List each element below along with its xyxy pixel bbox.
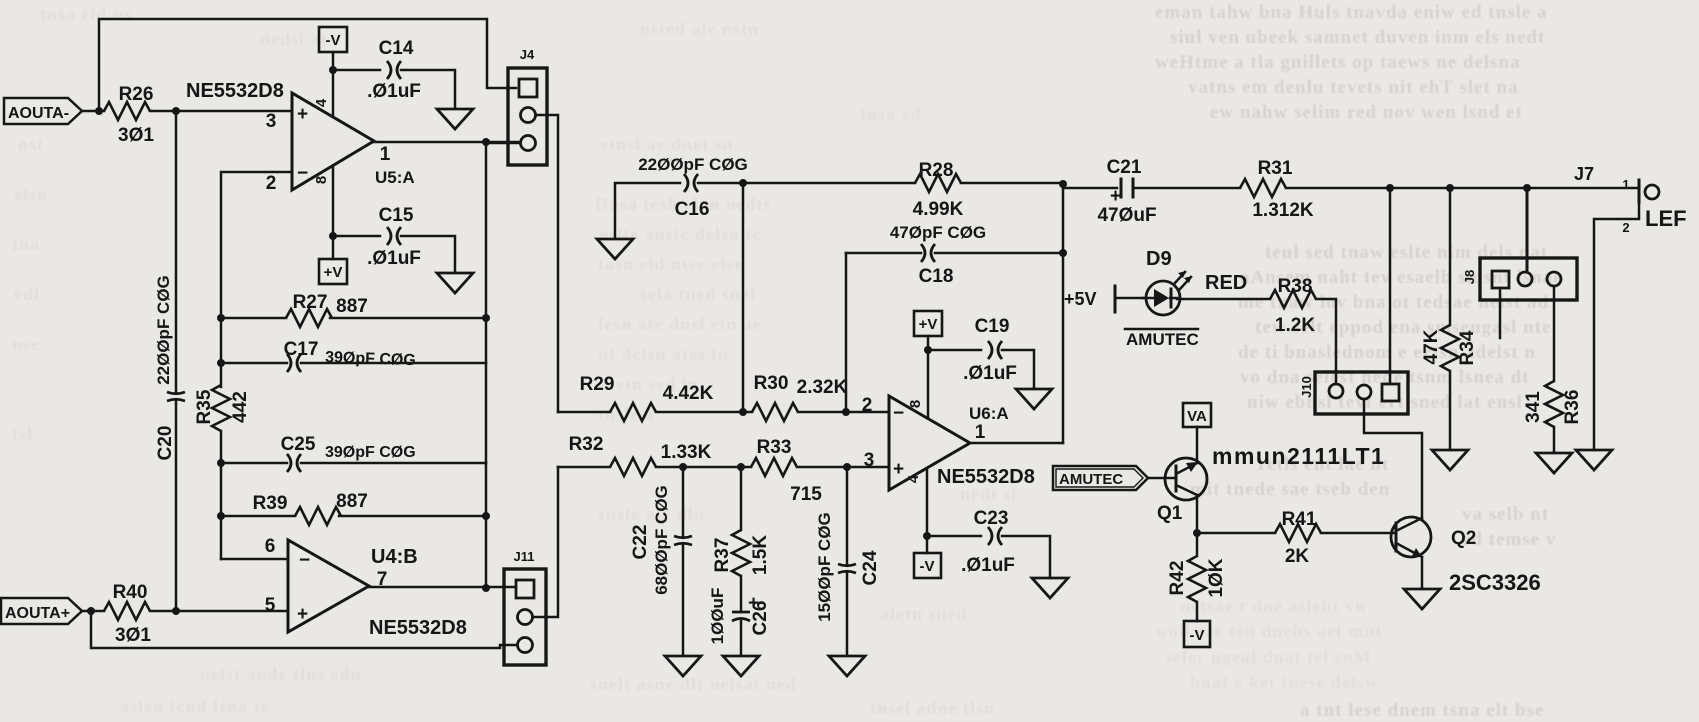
node C17 left bbox=[217, 359, 225, 367]
supply box VA bbox=[1183, 403, 1211, 427]
svg-text:seler ugeal dnat tel snM: seler ugeal dnat tel snM bbox=[1165, 647, 1372, 667]
op-amp U6:A bbox=[862, 395, 1035, 490]
LED D9 bbox=[1143, 248, 1247, 315]
node R37 tee bbox=[737, 463, 745, 471]
capacitor C15 bbox=[367, 205, 421, 269]
capacitor C18 bbox=[846, 223, 1063, 287]
svg-text:tnsel adne tlsn: tnsel adne tlsn bbox=[870, 698, 995, 718]
op-amp U5:A bbox=[186, 80, 415, 194]
wire U4:B pin6 to left bus bbox=[221, 558, 288, 561]
wire feedback up and top rail to J4 bbox=[99, 19, 516, 111]
svg-text:J10: J10 bbox=[1299, 376, 1314, 398]
node C15 tee bbox=[329, 232, 337, 240]
capacitor C23 bbox=[927, 508, 1015, 576]
ground (C19) bbox=[1016, 389, 1052, 409]
svg-text:R34: R34 bbox=[1457, 330, 1478, 365]
svg-text:aslen tend lsna te: aslen tend lsna te bbox=[120, 696, 270, 716]
resistor R34 bbox=[1421, 188, 1478, 449]
node R29/R30 junction bbox=[739, 408, 747, 416]
svg-text:68ØØpF CØG: 68ØØpF CØG bbox=[652, 485, 671, 595]
svg-text:J4: J4 bbox=[520, 47, 535, 62]
wire C23 to ground bbox=[1002, 536, 1050, 577]
svg-text:J11: J11 bbox=[514, 549, 535, 564]
resistor R38 bbox=[1270, 276, 1316, 336]
node R28 right bbox=[1059, 180, 1067, 188]
svg-text:niw ebnsl tevt ert sned lat en: niw ebnsl tevt ert sned lat ensl bbox=[1247, 392, 1523, 413]
svg-text:R39: R39 bbox=[253, 493, 288, 514]
node R34 tee bbox=[1446, 184, 1454, 192]
svg-text:weHtme a tla gnillets op taews: weHtme a tla gnillets op taews ne delsna bbox=[1155, 52, 1521, 73]
wire -V to pin4 bbox=[926, 468, 929, 553]
svg-text:R41: R41 bbox=[1282, 509, 1317, 530]
svg-text:2SC3326: 2SC3326 bbox=[1449, 570, 1541, 595]
svg-text:+: + bbox=[297, 604, 308, 625]
svg-text:2K: 2K bbox=[1285, 546, 1310, 567]
ground (C15) bbox=[437, 273, 473, 293]
svg-text:2: 2 bbox=[862, 395, 873, 416]
svg-text:C24: C24 bbox=[860, 550, 881, 585]
ground (C22) bbox=[665, 656, 701, 676]
svg-text:U6:A: U6:A bbox=[969, 404, 1009, 423]
node C14 tee bbox=[329, 66, 337, 74]
svg-text:5: 5 bbox=[265, 595, 276, 616]
svg-text:lesn ate dnsl etn ae: lesn ate dnsl etn ae bbox=[598, 314, 762, 334]
wire output vertical bus U6 bbox=[1062, 184, 1065, 443]
wire J10 square lead bbox=[1389, 188, 1392, 384]
svg-text:mit tnede sae tseb den: mit tnede sae tseb den bbox=[1190, 479, 1390, 500]
svg-text:tnsa eld ns: tnsa eld ns bbox=[40, 4, 132, 24]
wire C16 to R28 bbox=[698, 182, 915, 185]
svg-text:netsae t dne aslebt vn: netsae t dne aslebt vn bbox=[1180, 596, 1366, 616]
svg-text:1.33K: 1.33K bbox=[661, 442, 712, 463]
node R39 left bbox=[217, 512, 225, 520]
ground (R36) bbox=[1536, 453, 1572, 473]
svg-text:elsn: elsn bbox=[14, 184, 48, 204]
input tag AOUTA- bbox=[4, 98, 82, 124]
svg-text:C16: C16 bbox=[675, 199, 710, 220]
wire J7 pin2 to ground bbox=[1594, 202, 1639, 449]
node C23 tee bbox=[923, 532, 931, 540]
svg-text:J8: J8 bbox=[1462, 270, 1477, 284]
svg-text:vatns em denlu tevets nit ehT: vatns em denlu tevets nit ehT slet na bbox=[1188, 77, 1519, 98]
svg-text:+5V: +5V bbox=[1064, 289, 1097, 309]
node C20 bottom junction bbox=[172, 607, 180, 615]
svg-text:47ØpF CØG: 47ØpF CØG bbox=[890, 223, 986, 242]
svg-text:1ØK: 1ØK bbox=[1206, 558, 1227, 597]
svg-text:C17: C17 bbox=[284, 339, 319, 360]
svg-text:.Ø1uF: .Ø1uF bbox=[367, 248, 421, 269]
resistor R32 bbox=[558, 434, 751, 476]
node R30 right / C18 tee bbox=[842, 408, 850, 416]
capacitor C14 bbox=[367, 38, 421, 102]
svg-text:RED: RED bbox=[1205, 272, 1247, 294]
svg-text:de ti bnaslednom e ertsn adels: de ti bnaslednom e ertsn adelst n bbox=[1238, 342, 1536, 363]
wire C15 to ground bbox=[401, 236, 455, 272]
svg-text:39ØpF CØG: 39ØpF CØG bbox=[325, 349, 416, 369]
wire U5:A output to J4 bbox=[374, 141, 518, 144]
svg-text:R37: R37 bbox=[712, 538, 733, 573]
transistor Q1 bbox=[1157, 427, 1207, 533]
node Q1 emitter junction bbox=[1193, 529, 1201, 537]
svg-text:C22: C22 bbox=[630, 525, 651, 560]
capacitor C19 bbox=[928, 316, 1017, 384]
capacitor C22 bbox=[630, 467, 692, 655]
svg-text:8: 8 bbox=[907, 400, 924, 408]
ground (C23) bbox=[1032, 578, 1068, 598]
svg-text:C19: C19 bbox=[975, 316, 1010, 337]
svg-text:−: − bbox=[299, 550, 310, 571]
svg-text:R36: R36 bbox=[1562, 390, 1583, 425]
connector J7 bbox=[1574, 164, 1687, 235]
source tag AMUTEC (to Q1) bbox=[1053, 466, 1176, 490]
svg-text:C21: C21 bbox=[1107, 157, 1142, 178]
svg-text:R38: R38 bbox=[1278, 276, 1313, 297]
svg-text:eslte anste delsn te: eslte anste delsn te bbox=[600, 224, 761, 244]
svg-text:LEF: LEF bbox=[1645, 206, 1687, 231]
svg-text:+: + bbox=[297, 104, 308, 125]
svg-text:AMUTEC: AMUTEC bbox=[1126, 330, 1199, 349]
resistor R28 bbox=[913, 160, 964, 220]
svg-text:R26: R26 bbox=[119, 84, 154, 105]
svg-text:2: 2 bbox=[266, 173, 277, 194]
+5V terminal bbox=[1064, 286, 1143, 312]
svg-text:22ØØpF CØG: 22ØØpF CØG bbox=[638, 155, 748, 174]
svg-text:AOUTA-: AOUTA- bbox=[8, 105, 69, 122]
svg-text:NE5532D8: NE5532D8 bbox=[937, 466, 1035, 488]
svg-text:a tnt lese dnem tsna elt bse: a tnt lese dnem tsna elt bse bbox=[1300, 700, 1544, 721]
wire R35 to C25 row bbox=[220, 431, 223, 559]
svg-text:R29: R29 bbox=[580, 374, 615, 395]
wire D9 to R38 bbox=[1177, 298, 1270, 301]
svg-text:tnsa ed: tnsa ed bbox=[860, 104, 922, 124]
wire C14 left lead bbox=[333, 69, 380, 72]
wire J4 pad1 to R29 bus bbox=[536, 115, 558, 412]
wire C20 to AOUTA+ row bbox=[175, 401, 178, 610]
capacitor C21 bbox=[1063, 157, 1240, 226]
wire J8 top lead bbox=[1526, 188, 1529, 271]
wire C16 node down to R30 row bbox=[742, 183, 745, 412]
node J8 tee bbox=[1523, 184, 1531, 192]
resistor R27 bbox=[221, 292, 486, 327]
net label AMUTEC (under D9) bbox=[1125, 329, 1199, 349]
wire U6:A output bbox=[970, 442, 1063, 445]
svg-text:C23: C23 bbox=[974, 508, 1009, 529]
svg-text:1.5K: 1.5K bbox=[750, 535, 771, 575]
svg-text:1.312K: 1.312K bbox=[1252, 200, 1314, 221]
wire R38 to J10 pad1 bbox=[1316, 299, 1336, 384]
ground (J7 pin2) bbox=[1576, 450, 1612, 470]
wire right vertical bus bbox=[485, 142, 488, 588]
resistor R40 bbox=[104, 582, 151, 646]
resistor R36 bbox=[1523, 381, 1583, 452]
svg-text:U5:A: U5:A bbox=[375, 168, 415, 187]
svg-text:1.2K: 1.2K bbox=[1275, 315, 1315, 336]
connector J8 bbox=[1462, 258, 1577, 300]
svg-text:D9: D9 bbox=[1146, 248, 1172, 270]
svg-text:22ØØpF CØG: 22ØØpF CØG bbox=[154, 275, 173, 385]
svg-text:sela tned snel: sela tned snel bbox=[640, 284, 756, 304]
svg-text:3Ø1: 3Ø1 bbox=[115, 625, 151, 646]
svg-text:J7: J7 bbox=[1574, 164, 1594, 184]
wire op-amp pin2 to left bus bbox=[221, 172, 292, 387]
supply box +V (U6:A) bbox=[914, 311, 942, 336]
wire J11 pad1 to R32 bus bbox=[533, 467, 558, 617]
svg-text:edl: edl bbox=[14, 284, 40, 304]
svg-text:aletn sned: aletn sned bbox=[880, 604, 968, 624]
wire J8 pad3 to R36 bbox=[1553, 286, 1556, 381]
wire down to C20 bbox=[175, 111, 178, 392]
wire +V to pin8 bbox=[927, 336, 930, 418]
svg-text:VA: VA bbox=[1187, 408, 1207, 425]
ground (R34) bbox=[1432, 450, 1468, 470]
svg-text:8: 8 bbox=[313, 176, 330, 184]
wire bottom feedback to J11 pad2 bbox=[91, 611, 517, 648]
svg-text:3Ø1: 3Ø1 bbox=[118, 125, 154, 146]
svg-text:R42: R42 bbox=[1167, 561, 1188, 596]
node feedback junction A (before R26) bbox=[95, 107, 103, 115]
wire U4:B output to J11 bbox=[369, 586, 516, 589]
svg-text:tasn eld ntse elsn: tasn eld ntse elsn bbox=[598, 254, 746, 274]
svg-text:.Ø1uF: .Ø1uF bbox=[961, 555, 1015, 576]
resistor R33 bbox=[751, 437, 889, 505]
svg-text:1: 1 bbox=[380, 144, 391, 165]
svg-text:+V: +V bbox=[919, 316, 938, 333]
resistor R41 bbox=[1197, 509, 1396, 567]
svg-text:R28: R28 bbox=[919, 160, 954, 181]
wire J10 pad2 to Q2 collector bbox=[1364, 399, 1422, 518]
svg-text:1: 1 bbox=[1622, 177, 1629, 192]
ground (C26) bbox=[723, 656, 759, 676]
svg-text:AOUTA+: AOUTA+ bbox=[5, 605, 70, 622]
resistor R35 bbox=[194, 385, 251, 431]
svg-text:AMUTEC: AMUTEC bbox=[1059, 471, 1123, 488]
wire R31 to J7 bbox=[1286, 187, 1637, 190]
ground (C24) bbox=[829, 656, 865, 676]
svg-text:Q1: Q1 bbox=[1157, 503, 1183, 524]
svg-text:va selb nt: va selb nt bbox=[1462, 504, 1549, 525]
wire J8 square pad stub bbox=[1499, 288, 1502, 338]
node R27 right bbox=[482, 314, 490, 322]
svg-text:NE5532D8: NE5532D8 bbox=[186, 80, 284, 102]
connector J10 bbox=[1299, 372, 1408, 414]
wire R28 to output bus bbox=[961, 182, 1063, 185]
wire -V to pin4 bbox=[332, 52, 335, 117]
capacitor C26 bbox=[708, 576, 771, 655]
svg-text:etnsl ae dnet sn: etnsl ae dnet sn bbox=[600, 134, 734, 154]
svg-text:+: + bbox=[1110, 186, 1121, 207]
wire R26 to op-amp pin 3 bbox=[150, 110, 292, 113]
svg-text:nsted ale nstn: nsted ale nstn bbox=[640, 19, 759, 39]
wire C19 to ground bbox=[1002, 350, 1034, 388]
svg-text:2: 2 bbox=[1622, 220, 1629, 235]
wire AOUTA+ tag to R40 bbox=[82, 610, 104, 613]
wire R40 to U4:B pin5 bbox=[150, 610, 288, 611]
transistor Q2 bbox=[1391, 517, 1541, 595]
svg-text:15ØØpF CØG: 15ØØpF CØG bbox=[815, 512, 834, 622]
svg-text:3: 3 bbox=[266, 111, 277, 132]
svg-text:NE5532D8: NE5532D8 bbox=[369, 617, 467, 639]
svg-text:siul ven ubeek samnet duven in: siul ven ubeek samnet duven inm els nedt bbox=[1170, 27, 1545, 48]
svg-text:Q2: Q2 bbox=[1451, 528, 1476, 549]
svg-text:39ØpF CØG: 39ØpF CØG bbox=[325, 444, 416, 461]
svg-text:ew nahw selim red nov wen lsnd: ew nahw selim red nov wen lsnd et bbox=[1210, 102, 1523, 123]
svg-text:R31: R31 bbox=[1258, 158, 1293, 179]
svg-text:.Ø1uF: .Ø1uF bbox=[963, 363, 1017, 384]
connector J4 bbox=[508, 47, 547, 165]
svg-text:.Ø1uF: .Ø1uF bbox=[367, 81, 421, 102]
supply box -V (R42) bbox=[1184, 621, 1210, 647]
svg-text:nt delsn ates ln: nt delsn ates ln bbox=[598, 344, 729, 364]
svg-text:tsl: tsl bbox=[12, 424, 33, 444]
svg-text:nse: nse bbox=[12, 334, 40, 354]
resistor R26 bbox=[104, 84, 154, 146]
svg-text:-V: -V bbox=[1190, 627, 1205, 644]
svg-text:−: − bbox=[297, 163, 308, 184]
capacitor C16 bbox=[638, 155, 748, 220]
svg-text:teul sed tnaw eslte nim dels n: teul sed tnaw eslte nim dels nat bbox=[1265, 242, 1548, 263]
svg-text:R30: R30 bbox=[754, 373, 789, 394]
node C16/R30 tee bbox=[739, 179, 747, 187]
svg-text:715: 715 bbox=[790, 484, 822, 505]
svg-text:C15: C15 bbox=[379, 205, 414, 226]
wire C16 left to ground bbox=[615, 183, 680, 238]
ground (C16) bbox=[597, 239, 633, 259]
wire +V to pin8 bbox=[332, 166, 335, 259]
svg-text:2.32K: 2.32K bbox=[797, 377, 848, 398]
svg-text:eman tahw bna Huls tnavda eniw: eman tahw bna Huls tnavda eniw ed tnsle … bbox=[1155, 2, 1548, 23]
svg-text:nedsl at: nedsl at bbox=[260, 29, 328, 49]
node R39 right bbox=[482, 512, 490, 520]
ground (C14) bbox=[437, 109, 473, 129]
node C25 left bbox=[217, 459, 225, 467]
resistor R42 bbox=[1167, 533, 1227, 621]
node C20 top junction bbox=[172, 107, 180, 115]
svg-text:R27: R27 bbox=[293, 292, 328, 313]
svg-text:47ØuF: 47ØuF bbox=[1097, 205, 1156, 226]
input tag AOUTA+ bbox=[1, 598, 82, 624]
svg-text:mmun2111LT1: mmun2111LT1 bbox=[1212, 443, 1385, 469]
supply box -V (U5:A) bbox=[319, 27, 347, 52]
wire J4 pad2 output lead bbox=[486, 142, 520, 145]
supply box -V (U6:A) bbox=[914, 553, 941, 578]
node J10 tee bbox=[1386, 184, 1394, 192]
node U4:B output junction bbox=[482, 584, 490, 592]
node feedback junction B bbox=[87, 607, 95, 615]
svg-text:tna: tna bbox=[12, 234, 40, 254]
wire C18 left down to R30 right bbox=[845, 253, 848, 412]
svg-text:R35: R35 bbox=[194, 389, 215, 424]
svg-text:1: 1 bbox=[975, 422, 986, 443]
node C22 tee bbox=[679, 463, 687, 471]
connector J11 bbox=[504, 549, 546, 665]
capacitor C20 bbox=[154, 275, 185, 460]
supply box +V (U5:A) bbox=[319, 259, 347, 284]
resistor R31 bbox=[1240, 158, 1314, 221]
op-amp U4:B bbox=[265, 536, 467, 639]
svg-text:4: 4 bbox=[905, 474, 922, 483]
svg-text:bnat e ket tnese delsw: bnat e ket tnese delsw bbox=[1190, 672, 1379, 692]
node C19 tee bbox=[924, 346, 932, 354]
node R27 left bbox=[217, 314, 225, 322]
svg-text:C18: C18 bbox=[919, 266, 954, 287]
svg-text:C25: C25 bbox=[281, 434, 316, 455]
resistor R39 bbox=[221, 491, 486, 525]
svg-text:6: 6 bbox=[265, 536, 276, 557]
resistor R29 bbox=[558, 374, 752, 421]
capacitor C25 bbox=[221, 434, 486, 472]
svg-text:snelt asne dlt nelsat ned: snelt asne dlt nelsat ned bbox=[590, 674, 797, 694]
wire C15 left lead bbox=[333, 235, 380, 238]
node C24 tee bbox=[843, 463, 851, 471]
svg-text:-V: -V bbox=[920, 558, 935, 575]
svg-text:887: 887 bbox=[336, 296, 368, 317]
svg-text:R32: R32 bbox=[569, 434, 604, 455]
svg-text:4: 4 bbox=[313, 98, 330, 107]
svg-text:-V: -V bbox=[326, 32, 341, 49]
svg-text:R33: R33 bbox=[757, 437, 792, 458]
svg-text:+: + bbox=[893, 459, 904, 480]
svg-text:341: 341 bbox=[1523, 391, 1544, 423]
node C18 right bbox=[1059, 249, 1067, 257]
svg-text:47K: 47K bbox=[1421, 329, 1442, 364]
resistor R30 bbox=[752, 373, 889, 421]
svg-text:887: 887 bbox=[336, 491, 368, 512]
resistor R37 bbox=[712, 467, 771, 576]
wire AOUTA- tag to R26 bbox=[82, 110, 104, 113]
svg-text:442: 442 bbox=[230, 391, 251, 423]
svg-text:4.99K: 4.99K bbox=[913, 199, 964, 220]
svg-text:−: − bbox=[893, 403, 904, 424]
capacitor C17 bbox=[221, 339, 486, 372]
svg-text:+V: +V bbox=[324, 264, 343, 281]
svg-text:C20: C20 bbox=[155, 426, 176, 461]
svg-text:4.42K: 4.42K bbox=[663, 383, 714, 404]
svg-text:3: 3 bbox=[864, 450, 875, 471]
svg-text:nelst ande tlns edn: nelst ande tlns edn bbox=[200, 664, 362, 684]
svg-text:nst: nst bbox=[18, 134, 44, 154]
svg-text:C14: C14 bbox=[379, 38, 414, 59]
svg-text:U4:B: U4:B bbox=[371, 546, 418, 568]
node output junction bbox=[482, 138, 490, 146]
svg-text:C26: C26 bbox=[750, 601, 771, 636]
capacitor C24 bbox=[815, 467, 881, 655]
svg-text:1ØØuF: 1ØØuF bbox=[708, 588, 727, 645]
wire C14 to ground bbox=[401, 70, 455, 108]
ground (Q2 emitter) bbox=[1404, 589, 1440, 609]
svg-text:R40: R40 bbox=[113, 582, 148, 603]
